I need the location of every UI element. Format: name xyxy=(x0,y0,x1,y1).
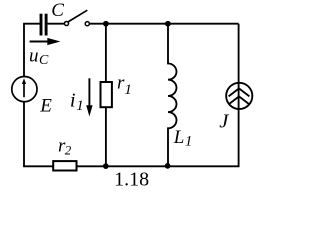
svg-text:1: 1 xyxy=(185,134,193,150)
svg-text:C: C xyxy=(51,0,64,21)
voltage arrow u_C xyxy=(30,38,61,45)
node junction bottom r1 xyxy=(103,163,109,169)
label L1 xyxy=(173,127,193,150)
svg-text:2: 2 xyxy=(65,142,72,157)
svg-text:u: u xyxy=(29,46,39,67)
wire bottom segment xyxy=(23,165,239,167)
voltage source E xyxy=(12,77,37,102)
wire top segment switch to right corner xyxy=(90,23,239,25)
label r2 xyxy=(58,136,72,158)
switch open contact xyxy=(64,10,89,26)
node junction top L1 xyxy=(165,21,171,27)
svg-text:1: 1 xyxy=(76,98,84,114)
figure number 1.18 xyxy=(114,168,149,190)
svg-text:1.18: 1.18 xyxy=(114,168,149,190)
wire left branch vertical (E branch) xyxy=(23,24,25,167)
current source J xyxy=(226,83,252,109)
wire top-left segment corner to capacitor xyxy=(23,23,39,25)
label C xyxy=(51,0,64,21)
label r1 xyxy=(117,73,132,99)
svg-text:J: J xyxy=(219,111,229,133)
svg-text:C: C xyxy=(39,53,49,68)
label i1 xyxy=(70,89,84,113)
capacitor C plates xyxy=(41,14,46,36)
wire capacitor to switch xyxy=(48,23,65,25)
label E xyxy=(39,95,52,116)
svg-text:1: 1 xyxy=(124,82,131,98)
node junction top r1 xyxy=(103,21,109,27)
svg-text:i: i xyxy=(70,89,76,111)
svg-text:E: E xyxy=(39,95,52,116)
svg-text:L: L xyxy=(173,127,185,148)
resistor r2 xyxy=(53,161,76,170)
label J xyxy=(219,111,229,133)
label u_C xyxy=(29,46,49,68)
wire L1 branch with inductor coil xyxy=(168,24,177,167)
resistor r1 xyxy=(101,82,112,107)
wire right branch vertical (J branch) xyxy=(238,24,240,167)
node junction bottom L1 xyxy=(165,163,171,169)
current arrow i1 xyxy=(86,78,92,116)
wire r1 branch vertical xyxy=(105,24,107,167)
